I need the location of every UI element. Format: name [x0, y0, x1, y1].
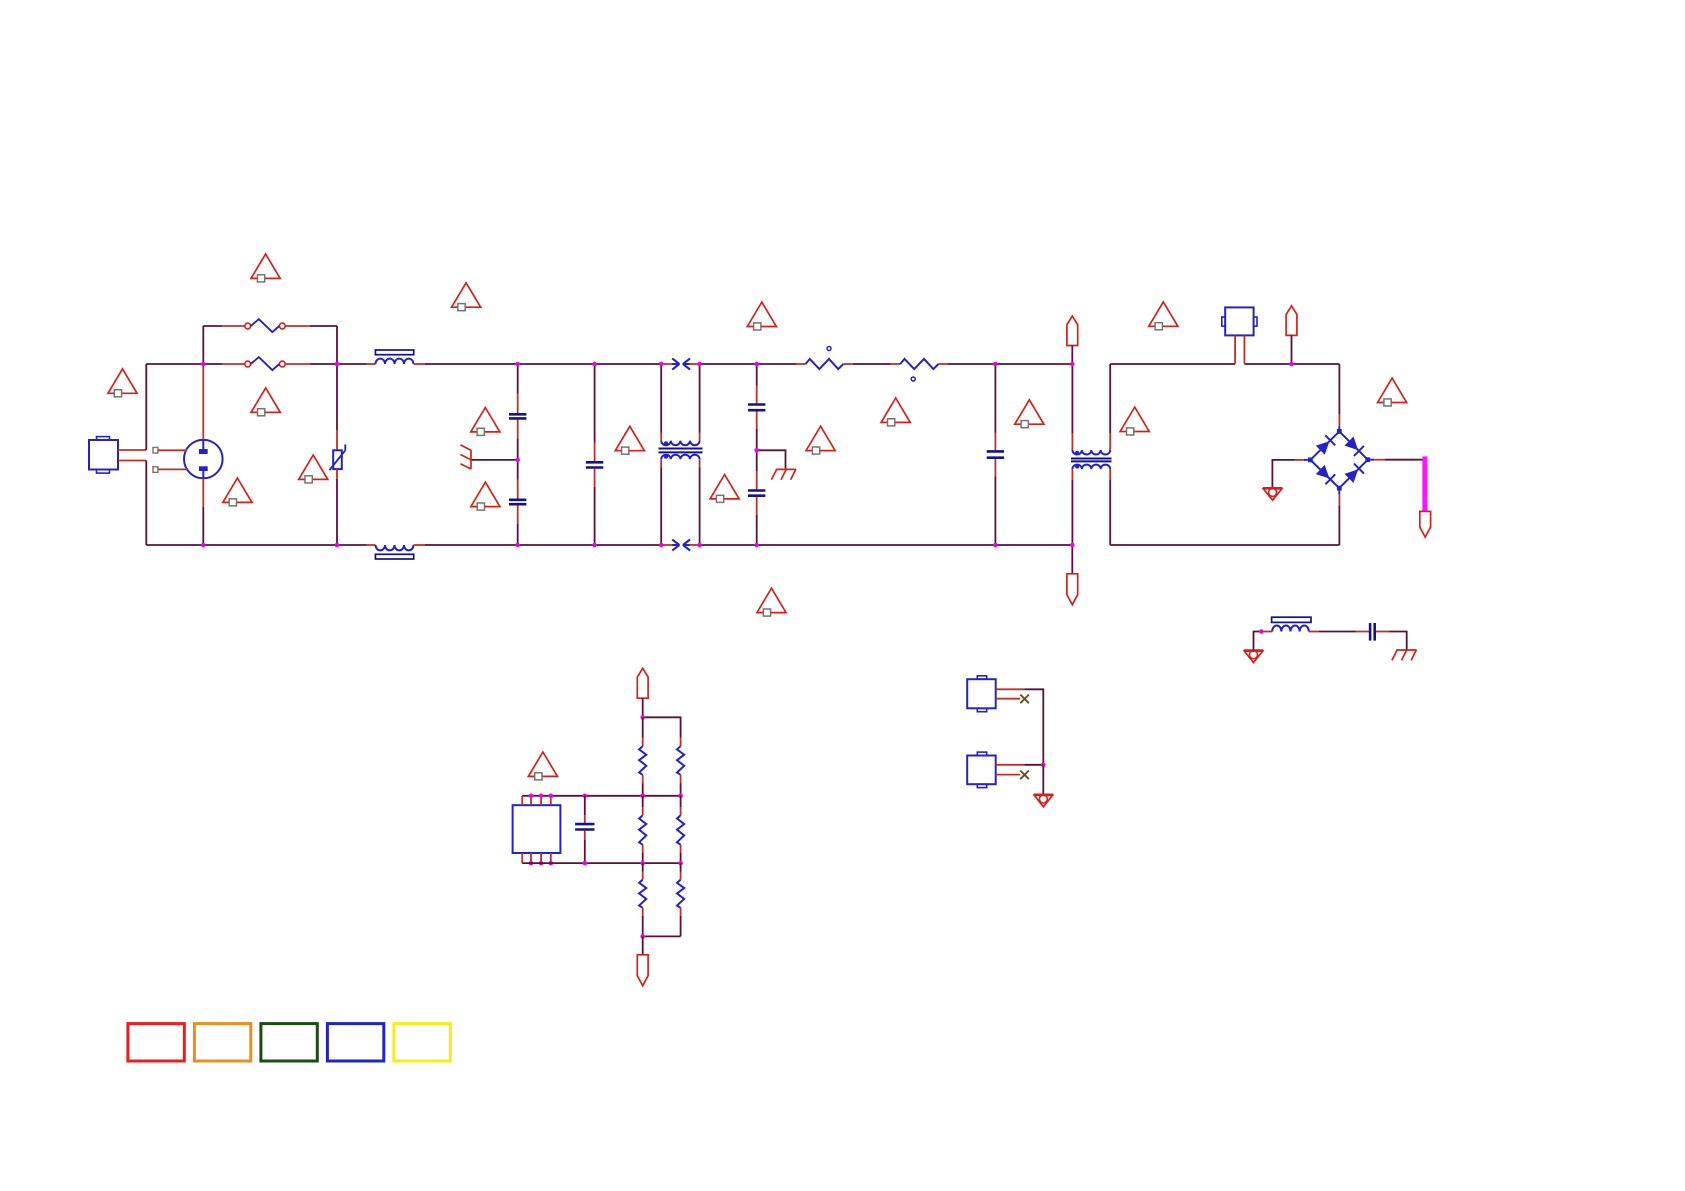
capacitor C3: [586, 364, 603, 545]
capacitor C5: [748, 450, 765, 545]
wire to ground (J3/J4): [1042, 765, 1044, 794]
wire upper bus: [522, 794, 683, 799]
wire L3 to C7: [1319, 631, 1369, 633]
fuse F1 (top): [203, 319, 337, 332]
warning triangle W9: [471, 408, 500, 436]
IC U1: [513, 805, 561, 853]
wire E1 bottom to bottom rail: [202, 478, 204, 545]
wire J1 pin2 to bottom rail: [118, 461, 146, 546]
wire bridge left to ground: [1272, 460, 1308, 488]
resistor R3: [639, 717, 646, 796]
junction transformer bottom: [1070, 543, 1075, 548]
resistor R6: [677, 863, 684, 936]
warning triangle W6: [251, 388, 280, 416]
wire bridge top to rail: [1338, 364, 1340, 429]
warning triangle W13: [806, 426, 835, 454]
resistor R5: [639, 863, 646, 936]
junction transformer top: [1070, 362, 1075, 367]
wire main top rail: [146, 363, 1072, 365]
common-mode choke LF1: [659, 364, 703, 545]
net flag (right loop): [1286, 306, 1297, 367]
junction dots bottom rail: [201, 543, 998, 548]
capacitor C7: [1370, 623, 1389, 641]
bridge rectifier BR1: [1308, 429, 1370, 491]
warning triangle W3: [747, 302, 776, 330]
pin square E1-2: [153, 467, 187, 473]
spark gap SG1 (top): [661, 358, 699, 369]
fuse F2 (main rail): [222, 357, 310, 370]
warning triangle W7: [299, 455, 328, 483]
warning triangle W15: [1015, 400, 1044, 428]
earth ground (RC): [1392, 650, 1417, 660]
wire fuse branch left vertical: [202, 326, 204, 364]
warning triangle W10: [471, 482, 500, 510]
power socket E1 (circle with prongs): [184, 440, 223, 479]
earth ground (rotated left): [460, 445, 471, 469]
IC U1 bottom pins: [522, 853, 553, 865]
wire lower bus: [522, 861, 683, 866]
junction C4/C5/earth: [754, 448, 759, 453]
transformer T1: [1071, 364, 1112, 545]
warning triangle W16: [1120, 407, 1149, 435]
capacitor C6: [987, 364, 1004, 545]
inductor L1 with core bar: [367, 350, 426, 364]
warning triangle W17: [1378, 378, 1407, 406]
net flag (down, right): [1420, 511, 1431, 537]
wire J4 pin1: [996, 763, 1046, 768]
power ground (bridge): [1263, 488, 1283, 500]
spark gap SG2 (bottom): [661, 539, 699, 550]
wire J4 pin2 (no connect): [996, 771, 1029, 780]
net flag (IC circuit top): [637, 668, 648, 717]
capacitor C1: [509, 364, 526, 460]
warning triangle W1: [251, 254, 280, 282]
power ground (connectors): [1034, 794, 1054, 806]
resistor R8 (mid): [677, 796, 684, 863]
varistor RV1: [329, 364, 345, 545]
warning triangle W8: [223, 478, 252, 506]
wire main bottom rail: [146, 544, 1072, 546]
wire top link: [640, 715, 680, 738]
wire to earth (left): [471, 459, 518, 461]
connector J2 (output): [1222, 307, 1257, 363]
warning triangle W14: [881, 398, 910, 426]
resistor R7 (mid): [639, 796, 646, 863]
warning triangle W19: [757, 588, 786, 616]
wire bottom link: [640, 934, 680, 939]
resistor R1: [796, 347, 853, 370]
wire E1 top to fuse junction: [202, 364, 204, 440]
wire fuse branch right vertical: [336, 326, 338, 364]
warning triangle W12: [710, 475, 739, 503]
legend blue box: [327, 1024, 383, 1061]
junction dots top rail: [201, 362, 998, 367]
wire J3 pin2 (no connect): [996, 695, 1029, 704]
resistor R4: [677, 738, 684, 796]
legend green box: [261, 1024, 317, 1061]
inductor L2 (bottom) with core bar: [367, 545, 426, 559]
net flag VIN+ (top, at transformer): [1067, 316, 1078, 364]
inductor L3 with core bar: [1272, 617, 1319, 631]
wire to earth (down): [757, 450, 786, 469]
wire bridge bottom to rail: [1338, 491, 1340, 546]
capacitor C2: [509, 460, 526, 545]
connector J3: [967, 676, 996, 712]
connector J4: [967, 752, 996, 788]
legend yellow box: [394, 1024, 450, 1061]
wire J3 pin1: [996, 689, 1044, 765]
wire right loop bottom rail: [1110, 544, 1339, 546]
wire J1 pin1 to top rail: [118, 364, 146, 450]
legend red box: [128, 1024, 184, 1061]
wire C7 to earth: [1390, 632, 1407, 650]
resistor R2: [891, 359, 949, 381]
IC U1 top pins: [522, 794, 553, 806]
legend orange box: [194, 1024, 250, 1061]
warning triangle W18: [528, 752, 557, 780]
warning triangle W5: [108, 369, 137, 397]
warning triangle W4: [1149, 302, 1178, 330]
net flag (IC circuit bottom): [637, 936, 648, 985]
earth ground (hatched): [771, 469, 796, 479]
warning triangle W11: [615, 426, 644, 454]
capacitor C8 (IC bypass): [575, 796, 594, 863]
wire gnd to L3: [1254, 629, 1273, 650]
power ground (RC): [1244, 650, 1264, 662]
warning triangle W2: [452, 283, 481, 311]
net flag VIN- (bottom, at transformer): [1067, 545, 1078, 605]
wire right loop top rail: [1110, 363, 1339, 365]
capacitor C4: [748, 364, 765, 450]
pin square E1-1: [153, 447, 187, 453]
magenta highlight bar: [1422, 456, 1427, 510]
connector J1 (AC input): [89, 437, 118, 474]
junction C1/C2/earth: [515, 458, 520, 463]
wire bridge right to probe: [1370, 459, 1422, 461]
